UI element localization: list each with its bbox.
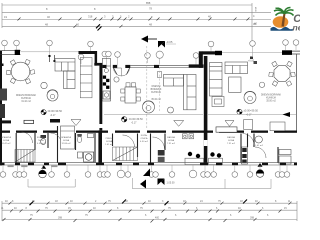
- sofa A vertical part: [64, 71, 76, 89]
- window sills: [8, 165, 58, 167]
- svg-text:31.10 m2: 31.10 m2: [21, 101, 31, 103]
- window band A top-left: [0, 50, 21, 52]
- room labels lower: [1, 134, 264, 147]
- bathroom B toilet: [77, 137, 82, 143]
- V vent C: [225, 121, 234, 127]
- wardrobe B dark: [158, 150, 165, 156]
- fixtures B small: [78, 152, 83, 158]
- bottom wall blocks: [0, 163, 297, 166]
- grid bubble C1: [250, 41, 256, 47]
- svg-text:1.05.00: 1.05.00: [167, 182, 176, 185]
- svg-text:+0.00: +0.00: [248, 60, 255, 63]
- grid bubble stems: [5, 46, 253, 65]
- desks B: [185, 158, 204, 165]
- wall: C right edge: [296, 54, 298, 132]
- section arrow bottom: [140, 180, 146, 189]
- dimension line D3: [2, 19, 271, 21]
- numbers below line2: [30, 214, 269, 217]
- kitchen C along party wall: [210, 63, 223, 97]
- svg-text:ne: ne: [293, 23, 301, 33]
- dining table B: [125, 87, 136, 103]
- closet C1: [244, 120, 253, 130]
- grid bubble A1: [2, 40, 8, 46]
- svg-text:SOBA: SOBA: [228, 139, 235, 142]
- closet C0 long: [216, 127, 237, 132]
- thin room edge line: [104, 113, 203, 115]
- svg-text:KUPAO-: KUPAO-: [37, 136, 45, 139]
- toilet C oval: [255, 136, 262, 143]
- svg-text:SOBA: SOBA: [63, 139, 70, 142]
- svg-text:±0.00=39.50: ±0.00=39.50: [48, 109, 63, 113]
- svg-text:SPAVAĆA: SPAVAĆA: [61, 136, 71, 139]
- column block C2: [282, 50, 292, 55]
- svg-text:400: 400: [155, 217, 160, 220]
- section arrow left-pointing: [141, 36, 148, 43]
- wall: A right corner down: [95, 51, 98, 66]
- dimension line D1 (overall): [2, 3, 271, 44]
- armchair A: [47, 90, 58, 101]
- wall: B top right thick: [189, 64, 204, 67]
- grid bubble C2: [283, 40, 289, 46]
- black arrow ticks on bottom line1: [30, 201, 34, 205]
- svg-text:RADNA: RADNA: [227, 136, 235, 139]
- sink B: [104, 68, 108, 72]
- svg-text:318: 318: [88, 15, 93, 19]
- shelves C right: [279, 150, 291, 155]
- grid bubble C3: [293, 40, 299, 46]
- column block C: [215, 51, 222, 55]
- chairs around table A: [10, 60, 15, 65]
- svg-text:-0.17: -0.17: [131, 122, 137, 125]
- svg-text:-0.17: -0.17: [246, 114, 252, 117]
- logo water waves: [271, 27, 293, 31]
- door gaps in main wall: [10, 130, 274, 133]
- level pinwheel: [158, 41, 165, 48]
- desks C: [209, 158, 223, 165]
- bubble C black: [256, 170, 264, 178]
- svg-text:KUHINJA: KUHINJA: [21, 97, 31, 100]
- V vent A: [71, 120, 81, 126]
- svg-text:1.61 m2: 1.61 m2: [105, 144, 114, 146]
- svg-text:DNEVNI BORAVAK: DNEVNI BORAVAK: [261, 94, 282, 97]
- thermostat B: [158, 72, 162, 78]
- bottom bubble row: [0, 172, 6, 178]
- night table B2: [189, 134, 194, 139]
- dim end vertical right: [251, 3, 253, 44]
- armchair C: [244, 92, 256, 104]
- door frame marks A: [49, 55, 51, 62]
- office chair C2: [217, 153, 221, 157]
- svg-text:±0.00=39.50: ±0.00=39.50: [244, 109, 259, 113]
- svg-text:4.50 m2: 4.50 m2: [37, 143, 46, 145]
- wall: A top right segment: [79, 51, 98, 54]
- stove B checkerboard: [103, 76, 106, 79]
- section flag upper: [143, 169, 150, 177]
- office chair B2: [196, 154, 200, 158]
- bed A: [61, 126, 75, 149]
- small round table B: [114, 77, 119, 82]
- sofa A horizontal part: [55, 59, 75, 89]
- entrance door arcs B: [114, 68, 122, 76]
- logo palm trunk: [282, 13, 286, 27]
- bubble B1 black: [39, 170, 47, 178]
- wall: B|C step vertical: [199, 51, 203, 68]
- svg-text:398: 398: [58, 217, 63, 220]
- svg-text:SPAVAĆA: SPAVAĆA: [1, 136, 11, 139]
- round table B: [143, 101, 155, 113]
- side table C: [259, 82, 264, 87]
- svg-text:-0.17: -0.17: [50, 114, 56, 117]
- interior partition walls: [16, 126, 278, 163]
- svg-text:DNEVNI: DNEVNI: [152, 86, 161, 88]
- night table B1: [183, 134, 188, 139]
- sofa C: [225, 62, 248, 92]
- ticks on line2: [10, 209, 282, 212]
- bathroom B sink: [88, 134, 94, 138]
- office chair C1: [210, 152, 214, 156]
- svg-text:SOBA: SOBA: [3, 139, 10, 142]
- svg-text:KUPA-: KUPA-: [141, 134, 148, 137]
- dark unit A left fixture: [0, 89, 7, 101]
- entrance triangle bottom A: [41, 165, 46, 169]
- wall: party wall B|C: [204, 56, 208, 132]
- svg-text:858: 858: [146, 1, 151, 5]
- svg-text:11.42 m2: 11.42 m2: [2, 143, 12, 145]
- extra ticks bottom line1: [9, 202, 292, 205]
- section arrow C: [283, 112, 291, 117]
- ticks on line3: [3, 218, 6, 221]
- wall: C top thick: [203, 51, 223, 54]
- grid bubble C0: [208, 41, 214, 47]
- grid bubble B4: [156, 51, 163, 58]
- svg-text:7.31 m2: 7.31 m2: [227, 143, 236, 145]
- fixtures C column: [242, 147, 248, 164]
- section pinwheel B: [122, 117, 127, 122]
- svg-text:SOBA: SOBA: [106, 140, 113, 143]
- tv cabinet C: [212, 97, 224, 107]
- svg-text:KUHINJA: KUHINJA: [266, 97, 276, 100]
- logo orange sun disc: [273, 16, 289, 28]
- svg-text:1.61 m2: 1.61 m2: [255, 145, 264, 147]
- svg-text:ONICA: ONICA: [141, 137, 148, 140]
- numbers above line1: [12, 200, 277, 203]
- facade line C: [222, 52, 282, 54]
- svg-text:7.31 m2: 7.31 m2: [167, 143, 176, 145]
- level mark C: [237, 109, 242, 114]
- section pinwheel bottom: [158, 179, 165, 186]
- kitchen marks C: [250, 57, 253, 60]
- grid bubble B3: [145, 53, 151, 59]
- svg-text:DNEVNI BORAVAK: DNEVNI BORAVAK: [16, 94, 37, 97]
- grid bubble A2: [14, 40, 20, 46]
- window B top: [130, 64, 188, 66]
- svg-text:BORAVAK: BORAVAK: [151, 88, 162, 91]
- svg-text:NICA: NICA: [38, 139, 44, 142]
- closet C2: [270, 122, 285, 131]
- dim end vertical left: [1, 3, 3, 28]
- wall: B top black segments: [103, 65, 107, 68]
- level mark A: [41, 110, 46, 115]
- svg-text:PRED-: PRED-: [106, 138, 113, 140]
- grid dashed line: [146, 46, 148, 129]
- washing machine B: [84, 152, 94, 162]
- svg-text:12.84 m2: 12.84 m2: [61, 143, 71, 145]
- wall segment y120 a: [0, 120, 11, 123]
- svg-text:398: 398: [250, 217, 255, 220]
- party walls lower: [98, 130, 102, 163]
- room label C living: [261, 94, 282, 103]
- wall segment y120 b: [50, 119, 60, 123]
- dimension line D2: [2, 11, 271, 13]
- grid bubble A4: [88, 41, 94, 47]
- wall: party wall A|B: [99, 65, 102, 130]
- svg-text:RADNA: RADNA: [167, 136, 175, 139]
- extra ticks bottom line3: [29, 218, 257, 221]
- V vent B: [174, 121, 184, 127]
- main interior wall y129: [0, 131, 297, 133]
- facade thin line: [21, 51, 79, 53]
- dim ticks on D4: [74, 24, 123, 30]
- room label A living: [16, 94, 37, 103]
- stairs A: [15, 150, 35, 163]
- room label B living: [151, 86, 162, 101]
- sofa B L-shape: [164, 75, 197, 110]
- grid bubble B1 double: [102, 51, 108, 57]
- grid bubble B2: [115, 52, 121, 58]
- dimension line D4: [2, 25, 271, 27]
- bottom bubble stems: [3, 165, 287, 172]
- wall: A left exterior: [0, 51, 2, 166]
- toilet A: [41, 135, 47, 138]
- grid bubble A3: [47, 40, 53, 46]
- door arcs lower rooms: [22, 132, 267, 158]
- left edge block: [0, 64, 4, 67]
- svg-text:SOBA: SOBA: [168, 139, 175, 142]
- svg-text:35.00 m2: 35.00 m2: [266, 101, 276, 103]
- svg-text:35.32 m2: 35.32 m2: [151, 99, 161, 101]
- column block A top: [15, 50, 20, 55]
- office chair B1: [188, 152, 192, 156]
- svg-text:4.50 m2: 4.50 m2: [140, 141, 149, 143]
- grid bubble B5: [193, 53, 199, 59]
- numbers above line2: [1, 207, 287, 210]
- cabinet A ladder: [80, 58, 92, 98]
- entrance triangle bottom C: [258, 163, 263, 167]
- fridge B: [103, 91, 110, 99]
- extra numbers bottom: [5, 200, 291, 219]
- dining table A: [11, 62, 30, 81]
- dim numbers row1: [4, 1, 257, 27]
- dining table C: [274, 66, 290, 82]
- dim ticks on D3: [18, 18, 250, 21]
- grid bubble B0: [78, 54, 84, 60]
- stairs B: [113, 147, 138, 161]
- side table A: [41, 82, 47, 88]
- logo palm fronds: [274, 8, 294, 16]
- kitchen strip A: [102, 59, 110, 102]
- window C right: [292, 50, 300, 52]
- svg-text:-0.05: -0.05: [166, 40, 173, 44]
